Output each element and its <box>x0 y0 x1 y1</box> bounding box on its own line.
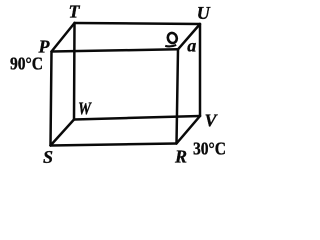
svg-text:U: U <box>197 3 211 23</box>
svg-text:R: R <box>174 147 187 167</box>
svg-text:a: a <box>187 35 196 55</box>
svg-text:T: T <box>69 2 81 22</box>
svg-text:90°C: 90°C <box>10 53 43 73</box>
svg-text:V: V <box>205 110 219 130</box>
svg-text:30°C: 30°C <box>193 138 226 158</box>
svg-text:S: S <box>43 147 53 167</box>
svg-text:W: W <box>78 99 93 119</box>
